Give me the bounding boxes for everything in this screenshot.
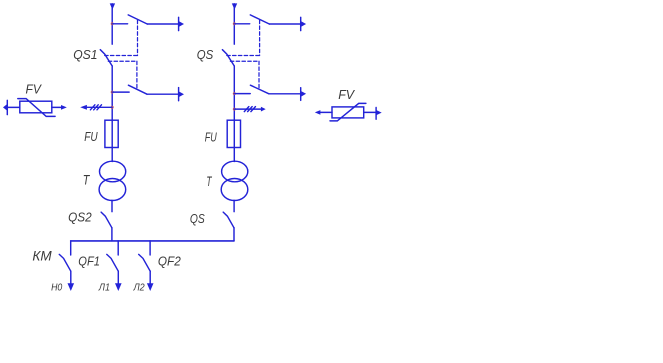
svg-text:FU: FU xyxy=(84,129,98,144)
wire KM stub xyxy=(70,241,72,255)
svg-text:QS2: QS2 xyxy=(68,210,92,225)
earthing switch blade top right xyxy=(250,15,269,24)
transformer T2 primary winding xyxy=(222,161,248,182)
svg-text:Л2: Л2 xyxy=(133,281,145,293)
disconnector QS1 blade xyxy=(100,50,112,66)
wire right top earthing horizontal xyxy=(269,23,300,25)
terminal bar bottom left xyxy=(178,88,180,101)
transformer T1 primary winding xyxy=(100,161,126,182)
surge arrester FV2 body xyxy=(332,107,364,118)
arrow FV2 left lead xyxy=(315,110,321,115)
fuse FU2 xyxy=(227,120,240,147)
terminal arrow top right xyxy=(301,21,306,27)
surge arrester FV2 terminal bar xyxy=(375,108,377,120)
busbar xyxy=(71,240,234,242)
arrow KM outgoing xyxy=(68,283,75,291)
svg-text:КМ: КМ xyxy=(32,249,52,264)
earthing switch blade bottom left xyxy=(128,85,147,94)
svg-text:QS: QS xyxy=(197,47,214,62)
wire FV1 right lead xyxy=(52,106,61,108)
transformer T2 secondary winding xyxy=(221,179,248,201)
linkage dashed horizontal 1 right xyxy=(227,55,260,57)
three-phase slashes right xyxy=(244,107,255,112)
svg-text:Н0: Н0 xyxy=(51,281,62,293)
svg-text:QF1: QF1 xyxy=(78,253,100,268)
svg-text:T: T xyxy=(206,173,212,189)
surge arrester FV2 terminal arrow xyxy=(376,110,381,115)
svg-text:QS: QS xyxy=(190,211,205,226)
wire right lower earthing horizontal xyxy=(269,93,301,95)
breaker QF2 blade xyxy=(139,254,151,271)
fuse FU1 xyxy=(105,120,118,147)
disconnector QS lower blade xyxy=(223,212,234,228)
svg-text:QS1: QS1 xyxy=(73,47,97,62)
terminal arrow top left xyxy=(179,21,184,27)
wire right top earthing stub xyxy=(234,23,249,25)
wire left main vertical middle xyxy=(111,66,113,162)
node right earthing junction xyxy=(233,92,236,95)
surge arrester FV1 body xyxy=(20,101,52,113)
svg-text:FU: FU xyxy=(205,129,217,144)
disconnector QS upper blade xyxy=(222,50,234,66)
wire right lower earthing stub xyxy=(234,93,250,95)
linkage dashed horizontal 2 right xyxy=(230,60,259,62)
wire left top earthing stub xyxy=(112,23,127,25)
linkage dashed vertical 2 right xyxy=(258,61,260,89)
wire right to busbar xyxy=(233,228,235,241)
arrow QF2 outgoing xyxy=(147,283,154,291)
wire FV2 left lead xyxy=(320,111,332,113)
arrow left arrester lead xyxy=(80,105,87,110)
disconnector QS2 blade xyxy=(101,212,112,228)
wire QF1 outgoing xyxy=(117,271,119,284)
wire left lower earthing stub xyxy=(112,91,129,93)
wire right main vertical middle xyxy=(233,66,235,162)
arrow QF1 outgoing xyxy=(115,283,122,291)
wire FV1 left lead xyxy=(7,106,19,108)
supply arrow left feeder xyxy=(110,3,115,9)
linkage dashed vertical 1 left xyxy=(137,20,139,55)
transformer T1 secondary winding xyxy=(99,179,126,201)
linkage dashed vertical 1 right xyxy=(259,20,261,55)
wire left top earthing horizontal xyxy=(147,23,178,25)
terminal bar top left xyxy=(178,17,180,30)
svg-text:FV: FV xyxy=(26,81,43,96)
linkage dashed horizontal 1 left xyxy=(105,55,138,57)
wire left below transformer xyxy=(111,200,113,211)
svg-text:T: T xyxy=(83,171,91,187)
contactor KM blade xyxy=(59,254,71,271)
terminal arrow bottom right xyxy=(301,91,306,97)
linkage dashed horizontal 2 left xyxy=(108,60,137,62)
wire left lower earthing horizontal xyxy=(147,93,179,95)
wire right main vertical upper xyxy=(233,4,235,44)
arrow FV1 right lead xyxy=(61,105,67,110)
wire QF2 outgoing xyxy=(149,271,151,284)
breaker QF1 blade xyxy=(107,254,119,271)
svg-text:QF2: QF2 xyxy=(158,253,182,268)
terminal bar top right xyxy=(300,17,302,30)
terminal bar bottom right xyxy=(300,88,302,101)
wire FV2 right lead xyxy=(364,111,376,113)
three-phase slashes left xyxy=(90,105,101,110)
terminal arrow bottom left xyxy=(179,92,184,98)
wire QF2 stub xyxy=(149,241,151,255)
wire QF1 stub xyxy=(117,241,119,255)
svg-text:FV: FV xyxy=(338,87,355,102)
surge arrester FV2 diagonal xyxy=(330,103,366,121)
svg-text:Л1: Л1 xyxy=(98,281,110,293)
arrow right arrester lead xyxy=(261,107,266,112)
node left top junction xyxy=(111,22,114,25)
earthing switch blade top left xyxy=(128,15,147,24)
node left arrester junction xyxy=(111,106,114,109)
surge arrester FV1 terminal arrow xyxy=(3,104,7,111)
wire left arrester lead xyxy=(87,106,112,108)
wire KM outgoing xyxy=(70,271,72,284)
surge arrester FV1 terminal bar xyxy=(6,100,8,114)
node right top junction xyxy=(233,22,236,25)
surge arrester FV1 diagonal xyxy=(18,99,55,117)
wire left main vertical upper xyxy=(111,4,113,44)
supply arrow right feeder xyxy=(232,3,237,9)
node right arrester junction xyxy=(233,108,236,111)
wire right below transformer xyxy=(233,200,235,211)
wire left to busbar xyxy=(111,228,113,241)
linkage dashed vertical 2 left xyxy=(136,61,138,89)
earthing switch blade bottom right xyxy=(250,85,269,94)
node left earthing junction xyxy=(111,91,114,94)
wire right arrester lead xyxy=(234,108,261,110)
